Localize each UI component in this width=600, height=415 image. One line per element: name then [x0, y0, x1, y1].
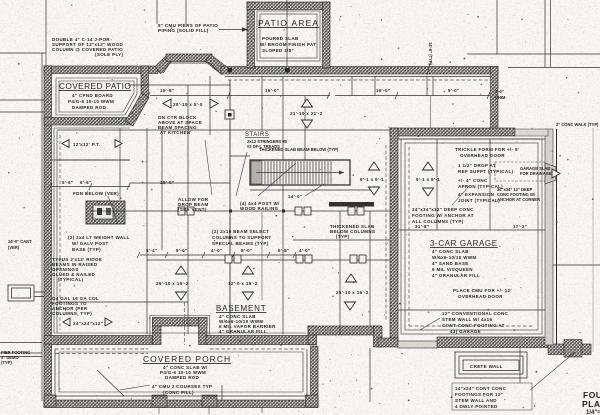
wall basement bottom left [44, 336, 152, 345]
wall patio-area top [247, 2, 330, 10]
arrow down x428 [423, 188, 434, 196]
line interior h y302 [57, 301, 188, 303]
wall basement bottom step-up [308, 326, 317, 345]
line below porch v1 [369, 348, 371, 402]
arrow down x351 [345, 302, 356, 310]
line pier h left2 [0, 352, 42, 354]
line topright v1 [496, 0, 498, 54]
leader stairs 1 [258, 163, 296, 196]
dashed footing lines [55, 80, 534, 354]
outline porch inner second [59, 352, 303, 392]
line interior v x147 [146, 128, 148, 334]
line closet v1 [426, 76, 428, 96]
line mid h y260 [147, 259, 390, 261]
wall porch bump top [153, 318, 208, 327]
arrow pair kitchen dim [163, 99, 171, 108]
dash inside west wall [59, 135, 61, 330]
line right of garage v1 [556, 129, 558, 344]
pilaster garage SE [564, 340, 582, 358]
outline basement inner bottom [54, 332, 306, 334]
line porch inner right v [306, 349, 308, 396]
line left margin v [41, 53, 43, 401]
wall junction to garage [378, 338, 398, 347]
line left h y112 [0, 111, 44, 113]
wall basement bottom mid [206, 336, 316, 345]
wall patio-area right [323, 2, 331, 68]
line left h y100 [0, 99, 44, 101]
line interior v x230 [229, 80, 231, 334]
dimension ticks [49, 63, 490, 258]
line left room h1 [52, 159, 130, 161]
arrow up x307 [302, 99, 313, 107]
wall garage/basement west [390, 128, 398, 340]
line topright v2 [544, 0, 546, 67]
beam bar [329, 202, 374, 207]
arrow up x428 [423, 162, 434, 170]
leader kitchen 2 [236, 152, 247, 196]
leader drop beam [205, 140, 212, 195]
stairs arrow [256, 172, 344, 174]
line garage h y310 [398, 309, 545, 311]
arrow up x374 [369, 162, 380, 170]
line garage mid h [398, 229, 545, 231]
line garage v x490 [489, 139, 491, 230]
wall covered patio top [44, 66, 158, 74]
outline basement inner west [53, 128, 55, 333]
garage right wall (light) [398, 129, 556, 348]
line garage top inner [398, 138, 545, 140]
wall covered patio SE chamfer [126, 93, 150, 126]
fireplace block [86, 201, 125, 224]
wall porch bump west [153, 318, 162, 345]
crete wall box [455, 352, 527, 378]
arrow right garage slab [552, 169, 560, 178]
leader stairs 2 [305, 184, 324, 196]
dash below bottom wall [55, 348, 148, 350]
wall basement bottom step-down [374, 326, 383, 347]
line interior v x120 [119, 128, 121, 200]
wall porch east [311, 346, 319, 407]
wall bay right chamfer [206, 55, 228, 75]
wall porch west [44, 344, 52, 407]
line top v1 [156, 0, 158, 24]
garage right bump [545, 163, 556, 184]
line topright h1 [467, 53, 600, 55]
line interior h y130 [57, 129, 390, 131]
arrow 24x24 [63, 318, 70, 326]
post squares [178, 110, 366, 263]
line right sheet v [592, 128, 594, 352]
line topleft v [45, 0, 47, 66]
dash top wall inner [228, 79, 488, 81]
line dim row right h [335, 95, 490, 97]
outline garage inner [401, 139, 542, 334]
arrow down x181 [176, 292, 187, 300]
line interior v x162 [161, 128, 163, 250]
line porch inner chamfer L [97, 370, 124, 396]
line right h y265 [553, 264, 600, 266]
arrow up x351 [346, 274, 357, 282]
line mid h y190 [250, 189, 375, 191]
line closet v2 [432, 76, 434, 96]
wall patio-area left [247, 2, 255, 68]
line mid h y240 [293, 239, 390, 241]
arrow 12x12 [62, 140, 69, 148]
porch bump centerline [159, 302, 262, 414]
wall east step [491, 67, 499, 131]
wall garage SE extension [548, 344, 591, 355]
wall main top [221, 67, 498, 75]
line patio-area v [286, 0, 288, 66]
INNER ROOM OUTLINES [54, 11, 542, 392]
line interior v x340 [339, 211, 341, 335]
line top dim arrow [219, 29, 248, 31]
line dim row left h [150, 95, 330, 97]
line interior v x262 [261, 76, 263, 130]
dash right of basement wall [385, 145, 387, 320]
line topright v3 [550, 0, 552, 67]
line top v2 [185, 0, 187, 24]
wall bay left chamfer [155, 55, 174, 74]
wall garage top [390, 128, 515, 136]
line interior v x305 [304, 96, 306, 160]
leader stem wall [420, 318, 440, 330]
dash porch top inner [210, 348, 306, 350]
stairs [250, 160, 374, 207]
line pier h left3 [0, 356, 42, 358]
wall porch bottom [44, 400, 318, 408]
wall basement bottom raised [308, 326, 380, 335]
wall covered patio right [141, 66, 149, 98]
line topleft h [0, 52, 46, 54]
line interior v x370b [369, 211, 371, 326]
line topright h2 [508, 67, 600, 69]
line pier h left [0, 342, 42, 344]
line garage v x437 [436, 139, 438, 230]
line porch inner left v [54, 349, 56, 396]
arrow down x307 [302, 120, 313, 128]
garage stem wall thin [398, 341, 437, 348]
arrow up x181 [176, 266, 187, 274]
line interior v x283 [282, 76, 284, 334]
line interior h y252 dim [140, 254, 310, 256]
leader cmu porch [120, 385, 150, 390]
line inner top wall [225, 76, 490, 78]
outline basement inner top [54, 127, 130, 129]
line below porch v2 [519, 348, 521, 383]
line kitchen h [128, 84, 230, 86]
line left room h y160b [57, 159, 130, 161]
wall garage bottom [437, 337, 549, 348]
west pier [8, 285, 44, 301]
leader left fireplace [108, 196, 118, 224]
line closet v3 [430, 96, 432, 128]
line interior v x352 [351, 76, 353, 96]
line left dim h [52, 186, 130, 188]
pilaster porch 3 [202, 395, 217, 407]
wall porch bump east [199, 318, 208, 345]
line porch v x222 [221, 385, 223, 400]
leader garage footing [452, 185, 470, 205]
line interior v x188 [187, 85, 189, 334]
line bay inner [163, 63, 219, 73]
leader footing diagonal [530, 352, 575, 390]
wall bay top [166, 54, 212, 62]
arrow up x248 [243, 266, 254, 274]
arrow down x248 [243, 292, 254, 300]
leader lines [108, 140, 575, 390]
line interior v x210 [209, 76, 211, 135]
line porch inner bottom [55, 395, 307, 397]
garage slab drainage box [495, 162, 545, 181]
footing note box [452, 383, 532, 410]
outline covered patio inner [56, 78, 137, 115]
line top v x375 [374, 76, 376, 96]
porch bump outline [150, 316, 210, 336]
line mid h y183 [130, 182, 230, 184]
pilaster porch 4 [306, 395, 319, 407]
outline patio area inner [257, 11, 320, 61]
dash garage inner [408, 147, 410, 326]
line mid h y211 [90, 210, 390, 212]
ARROWS [62, 99, 560, 326]
arrow down x374 [369, 187, 380, 195]
line interior h y156 stairs top ext [230, 155, 250, 157]
pilaster porch 1 [44, 395, 56, 407]
wall west exterior [44, 66, 52, 347]
wall covered patio bottom [44, 118, 132, 126]
pilaster porch 2 [152, 395, 167, 407]
